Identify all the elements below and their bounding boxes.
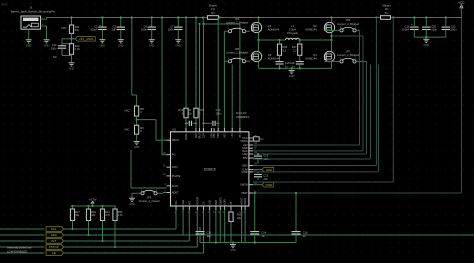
svg-text:10n: 10n (207, 234, 212, 238)
svg-text:IBUS: IBUS (199, 133, 202, 139)
svg-text:LS1: LS1 (231, 133, 234, 138)
U3 right pins (249, 137, 253, 139)
svg-text:C19: C19 (290, 61, 295, 65)
svg-text:+: + (411, 22, 413, 26)
wire Q1 drain (258, 18, 260, 23)
svg-text:ADIN: ADIN (224, 199, 227, 205)
svg-text:C2: C2 (113, 24, 117, 28)
svg-text:0x74 I2C: 0x74 I2C (236, 111, 247, 115)
svg-text:R8: R8 (140, 107, 144, 111)
capacitor C15 100uF (413, 18, 415, 27)
svg-text:CE: CE (203, 201, 206, 205)
svg-text:C4: C4 (144, 24, 148, 28)
svg-text:GND: GND (230, 249, 236, 252)
svg-text:NC: NC (53, 55, 57, 59)
svg-text:GND: GND (44, 44, 50, 47)
ground (425, 37, 427, 39)
svg-text:VINR: VINR (265, 183, 273, 187)
svg-text:U3: U3 (172, 127, 176, 131)
svg-text:+3.3V: +3.3V (89, 197, 97, 201)
svg-text:1%: 1% (211, 7, 215, 11)
svg-text:GND: GND (424, 44, 430, 47)
svg-text:HS2: HS2 (243, 152, 249, 156)
svg-text:2.2: 2.2 (293, 48, 297, 52)
svg-text:VBUS: VBUS (172, 138, 179, 142)
U3 top pins (185, 128, 187, 132)
wire VBATS down (219, 210, 221, 243)
svg-text:VBAT: VBAT (241, 191, 248, 195)
svg-text:R12: R12 (75, 44, 80, 48)
svg-text:PGND: PGND (244, 198, 247, 205)
svg-text:1uF: 1uF (112, 28, 117, 32)
wire BT2 route (253, 157, 255, 159)
svg-text:BT1: BT1 (239, 133, 242, 138)
wire VBAT route (253, 192, 461, 194)
wire ADIN down (224, 210, 226, 243)
capacitor C10 (204, 122, 211, 124)
wire R11 to net (71, 33, 73, 43)
svg-text:2.2: 2.2 (283, 48, 287, 52)
resistor R41 (102, 206, 104, 209)
svg-text:+5V_JACK: +5V_JACK (79, 37, 94, 41)
svg-text:R9: R9 (140, 126, 144, 130)
resistor R13 (184, 108, 188, 118)
ground (28, 39, 30, 40)
svg-text:R17: R17 (292, 45, 297, 49)
wire R8 tap to VBUS pin (137, 119, 156, 121)
transistor Q4 (324, 51, 334, 61)
svg-text:100n: 100n (216, 112, 222, 116)
jumper JP3 (141, 192, 144, 195)
wire JP4 gate drive (223, 31, 225, 132)
svg-text:C7: C7 (170, 24, 174, 28)
svg-text:C10: C10 (216, 108, 221, 112)
wire to gnd (62, 55, 72, 57)
ground (136, 140, 138, 141)
resistor R44 (114, 206, 116, 209)
wire to IC pins (203, 24, 205, 132)
wire rail to R8 (131, 18, 133, 96)
resistor R19 10k (230, 210, 232, 212)
capacitor C12 (257, 154, 259, 156)
wire BT1 net (195, 18, 197, 109)
svg-text:C20: C20 (431, 24, 436, 28)
wire LS2 route (253, 144, 360, 146)
svg-text:IBAT: IBAT (215, 199, 218, 205)
svg-text:C12: C12 (263, 154, 268, 158)
svg-text:Jumper_2_Bridged: Jumper_2_Bridged (337, 22, 359, 26)
svg-text:AON6144: AON6144 (305, 27, 317, 31)
wire cap gnd rail (414, 36, 446, 38)
svg-text:3.3uH: 3.3uH (289, 27, 296, 31)
wire SW2N route (253, 181, 393, 183)
capacitor C19 (299, 55, 301, 61)
svg-text:GPO: GPO (172, 165, 178, 169)
svg-text:GND: GND (149, 44, 155, 47)
wire sense route (253, 165, 376, 167)
capacitor C18 (279, 55, 281, 61)
capacitor C13 (257, 172, 259, 173)
capacitor C22 100n (445, 18, 447, 27)
ground (131, 197, 133, 198)
svg-text:JP3: JP3 (147, 196, 152, 200)
svg-text:VBATS: VBATS (219, 197, 222, 205)
svg-text:Barrel_Jack_Switch_MountingPin: Barrel_Jack_Switch_MountingPin (11, 10, 56, 14)
svg-text:PGATE: PGATE (172, 174, 181, 178)
svg-text:ADET: ADET (172, 191, 179, 195)
svg-text:SCL: SCL (51, 227, 57, 231)
svg-text:SC8815: SC8815 (204, 168, 216, 172)
svg-text:4.7k: 4.7k (75, 47, 81, 51)
svg-text:VDDA: VDDA (240, 139, 247, 143)
wire GPO route (130, 150, 132, 188)
svg-text:Jumper_2_Bridged: Jumper_2_Bridged (226, 21, 248, 25)
resistor R15 (194, 108, 198, 118)
svg-text:GND: GND (100, 44, 106, 47)
wire HS2 route (253, 153, 367, 155)
label VINREG (253, 184, 262, 186)
svg-text:100n: 100n (451, 28, 457, 32)
svg-text:JP7: JP7 (346, 50, 351, 54)
transistor Q3 (251, 51, 261, 61)
svg-text:GND: GND (69, 67, 75, 70)
svg-text:N/C: N/C (125, 128, 130, 132)
resistor R9 (135, 125, 139, 134)
capacitor C2 1uF (120, 18, 122, 28)
wire bottom gnd rail (200, 242, 296, 244)
svg-text:15A peak: 15A peak (287, 31, 299, 35)
label ILIM (253, 169, 262, 171)
wire R13 to pin (185, 118, 187, 132)
svg-text:100uF: 100uF (402, 28, 410, 32)
svg-text:PSTOP: PSTOP (49, 245, 59, 249)
svg-text:SWB1: SWB1 (185, 133, 188, 140)
svg-text:Jumper_2_Bridged: Jumper_2_Bridged (226, 51, 248, 55)
wire AGND down (241, 210, 243, 243)
wire SW2 node (300, 39, 332, 41)
J1 pin wires (41, 18, 47, 20)
capacitor C14 (254, 193, 256, 232)
transistor Q2 (324, 22, 334, 32)
svg-text:C13: C13 (263, 173, 268, 177)
svg-text:SCL: SCL (175, 199, 178, 204)
wire SW2 route (253, 150, 363, 152)
wire Q4 source (331, 62, 333, 69)
U3 left pins (167, 139, 171, 141)
wire Q4 drain (331, 40, 333, 51)
svg-text:N/C: N/C (62, 26, 67, 30)
resistor R16 (277, 44, 281, 55)
svg-text:Jumper_2_Bridged: Jumper_2_Bridged (337, 53, 359, 57)
svg-text:51k: 51k (75, 28, 80, 32)
svg-text:CSB: CSB (217, 133, 220, 138)
svg-text:100n: 100n (141, 28, 147, 32)
connector J1 barrel jack (21, 16, 41, 29)
svg-text:ADDRESS: ADDRESS (236, 115, 249, 119)
svg-text:BT2: BT2 (243, 156, 248, 160)
wire ILIM down (209, 210, 211, 243)
wire DRV net (185, 18, 187, 109)
svg-text:VB1: VB1 (213, 133, 216, 138)
svg-text:AON6144: AON6144 (268, 56, 280, 60)
svg-text:50ppm: 50ppm (209, 3, 218, 7)
svg-text:Jumper_2_Closed: Jumper_2_Closed (138, 199, 160, 203)
capacitor C7 100n (177, 18, 179, 28)
wire PGND rail (259, 67, 332, 69)
wire R8-R9 (136, 116, 138, 125)
svg-text:CSP: CSP (203, 133, 206, 138)
wire PG to rail (161, 18, 163, 155)
svg-text:22n: 22n (263, 177, 268, 181)
svg-text:LOW-ENABLED: LOW-ENABLED (7, 249, 27, 253)
svg-text:ILIM: ILIM (209, 200, 212, 205)
svg-text:R16: R16 (283, 45, 288, 49)
wire Q3 source (258, 62, 260, 69)
label +5V_JACK (62, 38, 75, 40)
resistor R12 (62, 43, 72, 45)
svg-text:VINR: VINR (241, 170, 247, 174)
wire route x378 (253, 171, 379, 173)
svg-text:JP6: JP6 (346, 18, 351, 22)
capacitor C1 100uF (101, 18, 103, 28)
svg-text:C22: C22 (451, 24, 456, 28)
svg-text:22n: 22n (188, 112, 193, 116)
svg-text:FB: FB (230, 201, 233, 204)
svg-text:1%: 1% (385, 7, 389, 11)
ground (291, 68, 293, 70)
svg-text:C9: C9 (188, 108, 192, 112)
ground (232, 243, 234, 245)
power flag +3.3V (92, 202, 94, 207)
svg-text:ILIM: ILIM (266, 168, 272, 172)
svg-text:GND: GND (134, 146, 140, 149)
svg-text:Q3: Q3 (268, 53, 272, 57)
svg-text:ACIN: ACIN (172, 184, 178, 188)
wire IBAT down (215, 210, 217, 243)
svg-text:GND: GND (129, 203, 135, 206)
svg-text:HS1: HS1 (223, 133, 226, 138)
wire Q3 drain (258, 40, 260, 51)
ground (71, 62, 73, 63)
wire IBUS sense (202, 18, 205, 25)
svg-text:100n: 100n (51, 47, 57, 51)
svg-text:SDA: SDA (51, 233, 57, 237)
wire VBUS top rail (47, 17, 208, 19)
capacitor C4 100n (151, 18, 153, 28)
svg-text:+: + (99, 23, 101, 27)
svg-text:INT: INT (51, 239, 56, 243)
svg-text:100n: 100n (168, 28, 174, 32)
wire Q2 source (331, 33, 333, 40)
wire R15 to pin (195, 118, 197, 132)
svg-text:Q4: Q4 (313, 53, 317, 57)
svg-text:4.7k: 4.7k (105, 214, 110, 217)
op-amp U3 SC8815 body (171, 132, 249, 206)
svg-text:GND: GND (289, 75, 295, 78)
U3 bottom pins (175, 206, 177, 210)
svg-text:R15: R15 (199, 108, 204, 112)
wire 3v3 rail (71, 205, 117, 207)
wire i2c harness (0, 228, 45, 230)
svg-text:C11: C11 (207, 231, 212, 235)
svg-text:INT: INT (188, 200, 191, 204)
svg-text:Q2: Q2 (313, 24, 317, 28)
capacitor C20 100n (425, 18, 427, 27)
svg-text:C16: C16 (303, 231, 308, 235)
svg-text:C12: C12 (52, 43, 57, 47)
svg-text:50ppm: 50ppm (382, 3, 391, 7)
svg-text:SW2N: SW2N (240, 183, 248, 187)
wire PGND down (244, 210, 246, 243)
svg-text:SW2: SW2 (242, 164, 248, 168)
svg-text:Q1: Q1 (268, 24, 272, 28)
wire SW1 node (258, 33, 260, 40)
ground (46, 39, 48, 40)
svg-text:AON6144: AON6144 (268, 27, 280, 31)
svg-text:GND: GND (26, 44, 32, 47)
svg-text:CE: CE (52, 251, 56, 255)
svg-text:JP4: JP4 (235, 17, 240, 21)
transistor Q1 (251, 22, 261, 32)
capacitor C9 (186, 122, 188, 124)
resistor R17 (298, 44, 302, 55)
svg-text:GND: GND (118, 44, 124, 47)
svg-text:N/C: N/C (125, 109, 130, 113)
wire Q2 drain (331, 18, 333, 23)
resistor R47 (72, 206, 74, 209)
svg-text:PG: PG (172, 153, 176, 157)
svg-text:C15: C15 (405, 24, 410, 28)
resistor FB1 small (254, 137, 260, 141)
svg-text:VCC: VCC (458, 0, 465, 4)
capacitor C11 (199, 227, 201, 232)
wire sense to pins (217, 121, 219, 132)
svg-text:GND: GND (176, 44, 182, 47)
label SCL SDA INT PSTOP CE (46, 227, 63, 232)
svg-text:SDA: SDA (182, 199, 185, 204)
svg-text:PSTOP: PSTOP (196, 196, 199, 204)
resistor R46 (88, 206, 90, 209)
svg-text:C14: C14 (261, 231, 266, 235)
resistor R11 (71, 18, 73, 26)
svg-text:JP5: JP5 (235, 47, 240, 51)
svg-text:R11: R11 (75, 25, 80, 29)
resistor R8 (135, 106, 139, 116)
svg-text:4.7k: 4.7k (118, 214, 123, 217)
capacitor C12 (61, 39, 63, 46)
capacitor C16 (295, 193, 297, 232)
svg-text:R13: R13 (178, 108, 183, 112)
svg-text:100uF: 100uF (90, 28, 98, 32)
svg-text:C1: C1 (94, 24, 98, 28)
svg-text:100n: 100n (431, 28, 437, 32)
svg-text:10k: 10k (237, 216, 242, 220)
wire JP5 gate drive (231, 65, 233, 132)
svg-text:AON6144: AON6144 (305, 56, 317, 60)
wire R9 gnd (136, 134, 138, 140)
